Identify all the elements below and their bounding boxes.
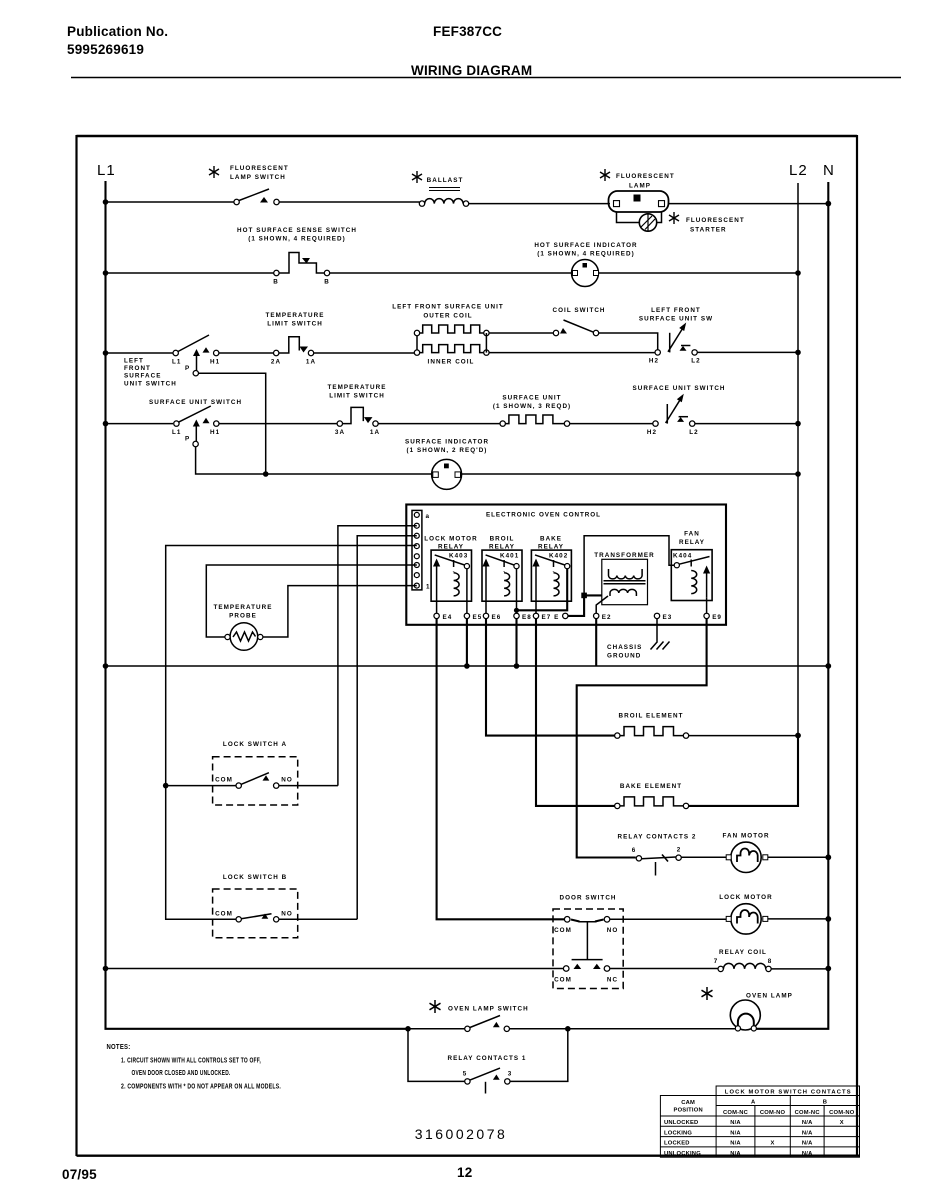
- svg-text:N/A: N/A: [730, 1141, 741, 1147]
- broil element: [615, 713, 689, 739]
- wire element to surface unit switch: [570, 423, 653, 425]
- svg-text:07/95: 07/95: [62, 1167, 97, 1182]
- oven lamp switch: [448, 1006, 529, 1032]
- junction relay contacts 1 left: [405, 1026, 411, 1032]
- asterisk oven lamp switch: [430, 1000, 441, 1013]
- part number 316002078: [415, 1126, 508, 1142]
- surface unit switch row4: [149, 399, 242, 447]
- wire E7 to bake element: [536, 619, 615, 806]
- junction relay contacts 1 right: [565, 1026, 571, 1032]
- junction N fan motor: [825, 854, 831, 860]
- svg-text:L1: L1: [172, 359, 181, 366]
- svg-text:H2: H2: [647, 429, 657, 436]
- wire E6 to broil element: [486, 619, 615, 736]
- svg-text:FAN MOTOR: FAN MOTOR: [722, 833, 769, 840]
- svg-text:LOCK MOTOR SWITCH CONTACTS: LOCK MOTOR SWITCH CONTACTS: [725, 1090, 851, 1096]
- svg-text:L2: L2: [789, 162, 808, 179]
- svg-text:(1 SHOWN, 4 REQUIRED): (1 SHOWN, 4 REQUIRED): [537, 251, 635, 258]
- outer border frame: [77, 135, 860, 1156]
- lock motor relay K403: [424, 536, 477, 614]
- svg-text:DOOR SWITCH: DOOR SWITCH: [559, 895, 616, 902]
- svg-text:3: 3: [508, 1071, 513, 1078]
- asterisk oven lamp: [702, 987, 713, 1000]
- svg-text:SURFACE: SURFACE: [124, 373, 161, 380]
- svg-text:RELAY CONTACTS 1: RELAY CONTACTS 1: [448, 1055, 527, 1062]
- junction E8 mid: [514, 663, 520, 669]
- svg-text:5: 5: [463, 1071, 468, 1078]
- junction N mid: [825, 663, 831, 669]
- svg-text:RELAY: RELAY: [679, 539, 705, 546]
- svg-text:2. COMPONENTS WITH * DO NOT AP: 2. COMPONENTS WITH * DO NOT APPEAR ON AL…: [121, 1084, 281, 1091]
- relay contacts 1: [408, 1029, 568, 1094]
- svg-text:N/A: N/A: [730, 1130, 741, 1136]
- svg-text:N/A: N/A: [802, 1151, 813, 1157]
- wire E3 to chassis ground: [656, 619, 658, 642]
- wire L1 to door switch bottom COM: [106, 968, 564, 970]
- svg-text:P: P: [185, 365, 190, 372]
- transformer: [594, 552, 655, 605]
- header publication number: [67, 24, 168, 57]
- door switch: [553, 895, 623, 989]
- svg-text:SURFACE INDICATOR: SURFACE INDICATOR: [405, 439, 489, 446]
- svg-text:BROIL: BROIL: [490, 536, 515, 543]
- wire L1 to N mid horizontal: [106, 665, 829, 667]
- junction N relay coil: [825, 966, 831, 972]
- wire door NC to relay coil: [610, 968, 718, 970]
- fan relay K404: [671, 531, 712, 614]
- relay coil: [714, 949, 773, 972]
- wire row4 switch to limit switch: [219, 423, 337, 425]
- svg-text:RELAY CONTACTS 2: RELAY CONTACTS 2: [618, 834, 697, 841]
- svg-text:E2: E2: [602, 614, 612, 621]
- wire lock A NO to riser: [279, 785, 338, 787]
- wire limit switch to surface unit element: [378, 423, 500, 425]
- wire E1 to transformer and fan relay feed: [568, 536, 674, 616]
- svg-text:A: A: [751, 1100, 756, 1106]
- svg-text:E8: E8: [522, 614, 532, 621]
- EOC terminal E4: [434, 613, 452, 621]
- svg-text:1: 1: [426, 584, 431, 591]
- svg-text:N/A: N/A: [802, 1141, 813, 1147]
- wire lock switch A NO to connector 2: [338, 526, 417, 786]
- svg-text:5995269619: 5995269619: [67, 42, 144, 57]
- svg-text:SURFACE UNIT SWITCH: SURFACE UNIT SWITCH: [632, 385, 725, 392]
- svg-text:SURFACE UNIT: SURFACE UNIT: [502, 395, 561, 402]
- svg-text:COM-NO: COM-NO: [760, 1110, 786, 1116]
- svg-text:(1 SHOWN, 4 REQUIRED): (1 SHOWN, 4 REQUIRED): [248, 236, 346, 243]
- temperature limit switch row3: [265, 312, 324, 366]
- svg-text:COM: COM: [215, 911, 233, 918]
- surface indicator: [405, 439, 489, 490]
- wire surface indicator to L2: [462, 473, 798, 475]
- svg-text:8: 8: [768, 958, 773, 965]
- header rule: [71, 77, 901, 79]
- asterisk fluorescent lamp: [600, 169, 610, 181]
- lock switch A: [213, 741, 298, 805]
- svg-text:BAKE: BAKE: [540, 536, 562, 543]
- wire lock switch B NO to connector 3: [357, 536, 417, 920]
- svg-text:COM-NC: COM-NC: [795, 1110, 821, 1116]
- bake element: [615, 783, 689, 809]
- junction L1 mid: [103, 663, 109, 669]
- svg-text:N/A: N/A: [730, 1120, 741, 1126]
- svg-text:FLUORESCENT: FLUORESCENT: [616, 173, 675, 180]
- svg-text:CHASSIS: CHASSIS: [607, 644, 642, 651]
- wire E8 drop: [515, 619, 517, 666]
- svg-text:316002078: 316002078: [415, 1126, 508, 1142]
- wire broil element to L2: [689, 735, 798, 737]
- svg-text:H1: H1: [210, 359, 220, 366]
- svg-text:3A: 3A: [335, 429, 345, 436]
- asterisk ballast: [412, 171, 422, 183]
- wire temp probe left to connector 6: [206, 565, 416, 637]
- svg-text:LOCKING: LOCKING: [664, 1130, 692, 1136]
- fluorescent starter loop: [617, 212, 662, 231]
- svg-text:1A: 1A: [370, 429, 380, 436]
- svg-text:1. CIRCUIT SHOWN WITH ALL CONT: 1. CIRCUIT SHOWN WITH ALL CONTROLS SET T…: [121, 1058, 261, 1065]
- svg-text:COM-NO: COM-NO: [829, 1110, 855, 1116]
- svg-text:LAMP SWITCH: LAMP SWITCH: [230, 174, 286, 181]
- svg-text:H1: H1: [210, 429, 220, 436]
- hot surface sense switch: [237, 227, 357, 286]
- wire relay coil to N: [771, 968, 828, 970]
- left front surface unit sw (ramp): [639, 307, 713, 365]
- EOC connector strip: [412, 510, 431, 590]
- svg-text:L1: L1: [172, 429, 181, 436]
- wire E9 to relay contacts 2: [577, 619, 707, 858]
- wire fan motor to N: [768, 856, 829, 858]
- wire inner coil to H2: [489, 352, 655, 354]
- junction L2 row4: [795, 421, 801, 427]
- svg-text:SURFACE UNIT SWITCH: SURFACE UNIT SWITCH: [149, 399, 242, 406]
- junction L2 row2: [795, 270, 801, 276]
- svg-text:NO: NO: [607, 927, 619, 934]
- svg-text:B: B: [823, 1100, 827, 1106]
- junction L1 row3: [103, 350, 109, 356]
- svg-text:COIL SWITCH: COIL SWITCH: [552, 307, 605, 314]
- svg-text:Publication No.: Publication No.: [67, 24, 168, 39]
- junction L1 door bottom: [103, 966, 109, 972]
- notes text: [107, 1044, 282, 1091]
- svg-text:BROIL ELEMENT: BROIL ELEMENT: [619, 713, 684, 720]
- svg-text:INNER COIL: INNER COIL: [428, 359, 475, 366]
- wire row3 L1 to switch: [106, 352, 174, 354]
- svg-text:UNIT SWITCH: UNIT SWITCH: [124, 381, 177, 388]
- junction E5 mid: [464, 663, 470, 669]
- wire fluorescent lamp to N: [668, 203, 828, 205]
- svg-text:UNLOCKED: UNLOCKED: [664, 1120, 698, 1126]
- EOC terminal E9: [704, 613, 722, 621]
- svg-text:OVEN LAMP: OVEN LAMP: [746, 993, 793, 1000]
- footer page number: [457, 1165, 472, 1180]
- wire row3 to L2 rail: [697, 351, 798, 353]
- junction L1 row2: [103, 270, 109, 276]
- surface unit switch ramp row4: [632, 385, 725, 436]
- asterisk fluorescent starter: [669, 212, 679, 224]
- svg-text:LEFT FRONT: LEFT FRONT: [651, 307, 701, 314]
- svg-text:H2: H2: [649, 358, 659, 365]
- wire row4 P drop: [196, 447, 432, 474]
- svg-text:E3: E3: [663, 614, 673, 621]
- svg-text:L2: L2: [691, 358, 700, 365]
- svg-text:OVEN LAMP SWITCH: OVEN LAMP SWITCH: [448, 1006, 529, 1013]
- junction square E1 node: [581, 593, 587, 599]
- svg-text:PROBE: PROBE: [229, 613, 257, 620]
- wire lock A COM feed: [166, 785, 236, 787]
- junction L2 row3: [795, 350, 801, 356]
- svg-text:6: 6: [632, 847, 637, 854]
- wire row1 L1 to lamp switch: [106, 201, 235, 203]
- wire lamp switch to ballast: [279, 201, 420, 203]
- EOC terminal E7: [533, 613, 559, 621]
- svg-text:L2: L2: [689, 429, 698, 436]
- svg-text:COM: COM: [215, 777, 233, 784]
- svg-text:OUTER COIL: OUTER COIL: [423, 313, 472, 320]
- wire hot surface indicator to L2: [599, 272, 799, 274]
- wire E2 to transformer: [596, 596, 608, 613]
- svg-text:LOCK SWITCH B: LOCK SWITCH B: [223, 874, 287, 881]
- node L2 label: [789, 162, 808, 179]
- wire relay contacts 2 to fan motor: [681, 856, 726, 858]
- svg-text:HOT SURFACE SENSE SWITCH: HOT SURFACE SENSE SWITCH: [237, 227, 357, 234]
- EOC terminal E8: [514, 613, 532, 621]
- svg-text:TEMPERATURE: TEMPERATURE: [213, 604, 272, 611]
- svg-text:FLUORESCENT: FLUORESCENT: [230, 165, 289, 172]
- wire oven lamp switch row: [408, 1028, 735, 1030]
- broil relay K401: [482, 536, 522, 614]
- svg-text:2A: 2A: [271, 359, 281, 366]
- svg-text:K402: K402: [549, 553, 568, 560]
- footer date: [62, 1167, 97, 1182]
- svg-text:K403: K403: [449, 553, 468, 560]
- svg-text:LOCK MOTOR: LOCK MOTOR: [719, 894, 772, 901]
- bake relay K402: [531, 536, 571, 614]
- EOC terminal E3: [654, 613, 672, 621]
- svg-text:LEFT: LEFT: [124, 358, 144, 365]
- svg-text:N/A: N/A: [802, 1130, 813, 1136]
- svg-text:TRANSFORMER: TRANSFORMER: [594, 552, 655, 559]
- wire row4 L1 to switch: [106, 423, 174, 425]
- svg-text:P: P: [185, 436, 190, 443]
- svg-text:ELECTRONIC OVEN CONTROL: ELECTRONIC OVEN CONTROL: [486, 512, 601, 519]
- wire lock motor to N: [768, 918, 829, 920]
- lock motor switch contacts table: [660, 1086, 859, 1157]
- svg-text:X: X: [771, 1141, 775, 1147]
- header title WIRING DIAGRAM: [411, 63, 532, 78]
- ballast L: [419, 177, 468, 206]
- lock motor: [719, 894, 772, 934]
- wire E5 drop: [466, 619, 468, 666]
- junction N row1: [825, 201, 831, 207]
- wire limit switch to coils: [314, 352, 417, 354]
- wire row3 switch to limit switch: [219, 352, 274, 354]
- wire L2 rail: [687, 183, 799, 806]
- svg-text:FLUORESCENT: FLUORESCENT: [686, 217, 745, 224]
- svg-text:LOCKED: LOCKED: [664, 1141, 690, 1147]
- EOC terminal E5: [464, 613, 482, 621]
- svg-text:7: 7: [714, 958, 719, 965]
- svg-text:RELAY COIL: RELAY COIL: [719, 949, 767, 956]
- temperature probe: [213, 604, 272, 650]
- wire lock switches COM to connector 4: [166, 546, 417, 920]
- svg-text:1A: 1A: [306, 359, 316, 366]
- EOC terminal E2: [594, 613, 612, 621]
- svg-text:N: N: [823, 162, 835, 179]
- svg-text:FRONT: FRONT: [124, 365, 151, 372]
- svg-text:SURFACE UNIT SW: SURFACE UNIT SW: [639, 316, 713, 323]
- relay contacts 2: [618, 834, 697, 876]
- svg-text:WIRING DIAGRAM: WIRING DIAGRAM: [411, 63, 532, 78]
- EOC terminal E1: [563, 613, 568, 618]
- svg-text:E6: E6: [492, 614, 502, 621]
- left front surface unit switch: [124, 335, 220, 388]
- svg-text:K401: K401: [500, 553, 519, 560]
- svg-text:LOCK SWITCH A: LOCK SWITCH A: [223, 741, 287, 748]
- wire coil switch to H2 drop: [599, 333, 658, 350]
- wire sense switch to hot surface indicator: [330, 272, 572, 274]
- wire row4 to L2 rail: [695, 423, 798, 425]
- svg-text:NO: NO: [281, 777, 293, 784]
- wire row3 P drop: [199, 373, 266, 474]
- header model number FEF387CC: [433, 24, 502, 39]
- junction L1 row4: [103, 421, 109, 427]
- svg-text:GROUND: GROUND: [607, 653, 641, 660]
- node N label: [823, 162, 835, 179]
- svg-text:OVEN DOOR CLOSED AND UNLOCKED.: OVEN DOOR CLOSED AND UNLOCKED.: [132, 1070, 231, 1077]
- wire N rail: [754, 182, 828, 1029]
- wire E4 to door switch COM: [437, 619, 565, 920]
- svg-text:2: 2: [677, 847, 682, 854]
- svg-text:POSITION: POSITION: [674, 1108, 703, 1114]
- temperature limit switch row4: [327, 384, 386, 436]
- svg-text:NOTES:: NOTES:: [107, 1044, 131, 1051]
- surface unit element: [493, 395, 571, 427]
- svg-text:CAM: CAM: [681, 1100, 695, 1106]
- fan motor: [722, 833, 769, 873]
- svg-text:N/A: N/A: [802, 1120, 813, 1126]
- svg-text:FEF387CC: FEF387CC: [433, 24, 502, 39]
- svg-text:LOCK MOTOR: LOCK MOTOR: [424, 536, 477, 543]
- svg-text:COM-NC: COM-NC: [723, 1110, 749, 1116]
- svg-text:TEMPERATURE: TEMPERATURE: [265, 312, 324, 319]
- svg-text:12: 12: [457, 1165, 472, 1180]
- svg-text:(1 SHOWN, 3 REQD): (1 SHOWN, 3 REQD): [493, 403, 571, 410]
- svg-text:TEMPERATURE: TEMPERATURE: [327, 384, 386, 391]
- svg-text:(1 SHOWN, 2 REQ'D): (1 SHOWN, 2 REQ'D): [407, 447, 488, 454]
- svg-text:UNLOCKING: UNLOCKING: [664, 1151, 701, 1157]
- svg-text:B: B: [324, 279, 330, 286]
- svg-text:BALLAST: BALLAST: [427, 177, 464, 184]
- wire E2 to N: [595, 619, 597, 666]
- svg-text:COM: COM: [554, 927, 572, 934]
- EOC terminal E6: [483, 613, 501, 621]
- svg-text:LAMP: LAMP: [629, 183, 651, 190]
- junction P wires: [263, 471, 269, 477]
- junction N lock motor: [825, 916, 831, 922]
- svg-text:E9: E9: [712, 614, 722, 621]
- label fluorescent starter: [686, 217, 745, 234]
- hot surface indicator: [534, 242, 637, 287]
- oven lamp: [730, 993, 793, 1032]
- electronic oven control box: [406, 505, 726, 625]
- wire temp probe right to connector 8: [263, 586, 417, 637]
- svg-text:E4: E4: [443, 614, 453, 621]
- svg-text:NC: NC: [607, 977, 618, 984]
- wire outer coil to coil switch: [489, 332, 553, 334]
- svg-text:N/A: N/A: [730, 1151, 741, 1157]
- svg-text:FAN: FAN: [684, 531, 700, 538]
- junction L2 broil: [795, 733, 801, 739]
- svg-text:HOT SURFACE INDICATOR: HOT SURFACE INDICATOR: [534, 242, 637, 249]
- left front surface unit coils: [392, 304, 504, 366]
- svg-text:BAKE ELEMENT: BAKE ELEMENT: [620, 783, 682, 790]
- fluorescent lamp switch: [230, 165, 289, 205]
- junction E8 join: [514, 608, 519, 613]
- junction L2 indicator: [795, 471, 801, 477]
- svg-text:LEFT FRONT SURFACE UNIT: LEFT FRONT SURFACE UNIT: [392, 304, 504, 311]
- junction L1 row1: [103, 199, 109, 205]
- junction lock A COM: [163, 783, 169, 789]
- wire row2 L1 to sense switch: [106, 272, 274, 274]
- wire door NO to lock motor: [610, 918, 728, 920]
- wire lock B NO to riser: [279, 918, 357, 920]
- svg-text:a: a: [426, 513, 431, 520]
- wire L1 rail: [106, 181, 409, 1029]
- chassis ground: [607, 642, 670, 660]
- wire ballast to fluorescent lamp: [469, 203, 610, 205]
- svg-text:E7 E: E7 E: [542, 614, 560, 621]
- asterisk fluorescent lamp switch: [209, 166, 219, 178]
- svg-text:LIMIT SWITCH: LIMIT SWITCH: [329, 393, 385, 400]
- node L1 label: [97, 162, 116, 179]
- svg-text:COM: COM: [554, 977, 572, 984]
- coil switch: [552, 307, 605, 336]
- svg-text:E5: E5: [473, 614, 483, 621]
- svg-text:K404: K404: [673, 553, 692, 560]
- lock switch B: [213, 874, 298, 938]
- svg-text:X: X: [840, 1120, 844, 1126]
- svg-text:NO: NO: [281, 911, 293, 918]
- svg-text:B: B: [273, 279, 279, 286]
- svg-text:STARTER: STARTER: [690, 227, 727, 234]
- svg-text:LIMIT SWITCH: LIMIT SWITCH: [267, 321, 323, 328]
- svg-text:L1: L1: [97, 162, 116, 179]
- fluorescent lamp: [609, 173, 675, 212]
- wire bake contact to E8 join: [517, 569, 568, 611]
